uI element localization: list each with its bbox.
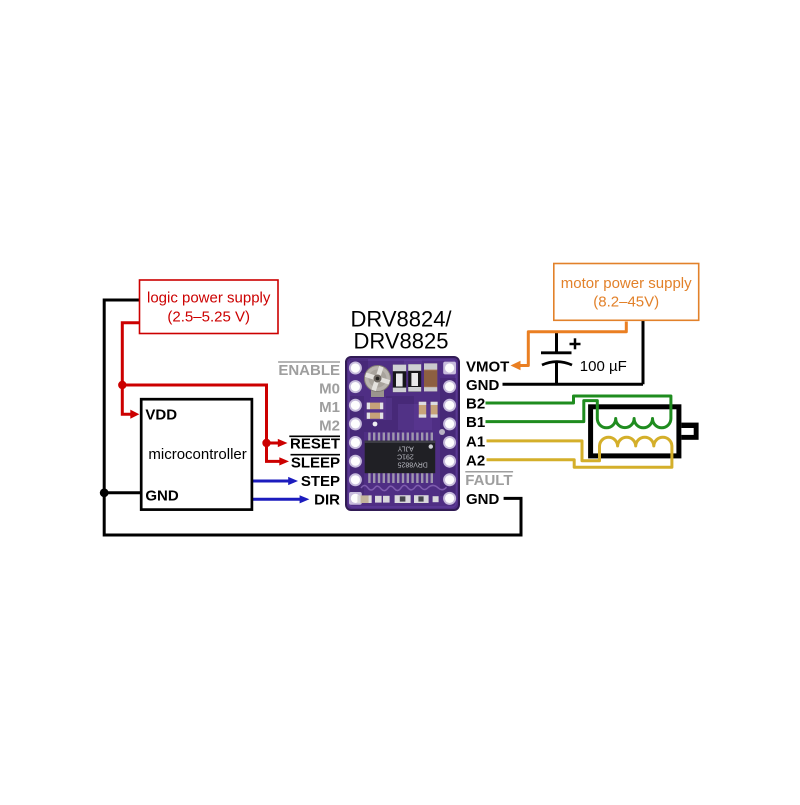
svg-text:SLEEP: SLEEP <box>291 455 340 472</box>
svg-text:VDD: VDD <box>145 406 177 423</box>
svg-text:A1: A1 <box>466 433 485 450</box>
svg-text:GND: GND <box>466 491 500 508</box>
svg-text:DRV8825: DRV8825 <box>397 460 427 467</box>
svg-text:DRV8825: DRV8825 <box>354 328 449 353</box>
svg-text:motor power supply: motor power supply <box>561 275 692 292</box>
svg-text:VMOT: VMOT <box>466 359 509 376</box>
svg-text:(8.2–45V): (8.2–45V) <box>593 293 659 310</box>
svg-text:ENABLE: ENABLE <box>278 362 340 379</box>
svg-text:AJLY: AJLY <box>397 444 414 451</box>
svg-text:FAULT: FAULT <box>465 472 512 489</box>
svg-text:STEP: STEP <box>301 473 340 490</box>
svg-text:A2: A2 <box>466 452 485 469</box>
svg-text:DIR: DIR <box>314 492 340 509</box>
svg-text:GND: GND <box>145 487 179 504</box>
svg-text:100 µF: 100 µF <box>580 358 627 375</box>
svg-text:RESET: RESET <box>290 435 340 452</box>
svg-text:M0: M0 <box>319 381 340 398</box>
svg-text:microcontroller: microcontroller <box>148 446 246 463</box>
svg-text:291C: 291C <box>397 452 414 459</box>
svg-text:M2: M2 <box>319 418 340 435</box>
svg-text:(2.5–5.25 V): (2.5–5.25 V) <box>167 309 250 326</box>
svg-text:GND: GND <box>466 377 500 394</box>
svg-text:B2: B2 <box>466 396 485 413</box>
svg-text:B1: B1 <box>466 414 485 431</box>
svg-text:M1: M1 <box>319 399 340 416</box>
svg-text:logic power supply: logic power supply <box>147 290 271 307</box>
